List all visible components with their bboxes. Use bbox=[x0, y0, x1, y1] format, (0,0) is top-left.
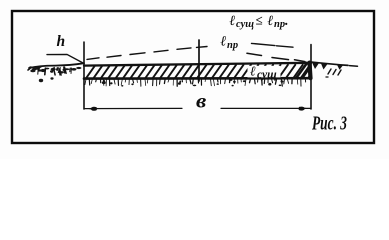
left ground texture bbox=[29, 66, 42, 70]
svg-text:в: в bbox=[196, 90, 207, 112]
grass texture under pavement bbox=[85, 79, 86, 84]
frame border bbox=[12, 11, 374, 143]
svg-text:ℓ: ℓ bbox=[230, 14, 236, 29]
label: Ris. 3 bbox=[311, 112, 347, 134]
left ground line bbox=[29, 63, 84, 68]
svg-text:h: h bbox=[57, 33, 66, 50]
right ground texture bbox=[312, 63, 319, 70]
hatching of pavement bbox=[86, 65, 325, 79]
label: formula l_sush <= l_pr. bbox=[230, 12, 289, 30]
svg-text:ℓ: ℓ bbox=[221, 35, 227, 50]
dimension line (right segment) bbox=[221, 107, 311, 109]
svg-text:Рис. 3: Рис. 3 bbox=[311, 112, 347, 134]
right extension line bbox=[310, 45, 312, 110]
left extension line bbox=[83, 42, 85, 109]
svg-text:сущ: сущ bbox=[257, 69, 277, 81]
svg-text:пр: пр bbox=[274, 19, 285, 30]
lower dashed segments (existing grade) bbox=[247, 53, 305, 61]
dimension line (left segment) bbox=[84, 107, 182, 109]
right dimension arrow bbox=[299, 107, 309, 110]
label: v (dimension) bbox=[196, 90, 207, 112]
left dimension arrow bbox=[87, 107, 97, 110]
centerline (road axis) bbox=[198, 40, 200, 81]
label h leader line bbox=[47, 54, 84, 63]
svg-text:пр: пр bbox=[227, 40, 238, 51]
pavement band: right end bold edge bbox=[310, 63, 311, 79]
svg-text:.: . bbox=[285, 14, 289, 29]
label: l_sush (on pavement) bbox=[248, 64, 281, 81]
pavement band: bottom edge bbox=[84, 77, 311, 80]
svg-text:сущ: сущ bbox=[236, 19, 254, 30]
pavement band: top edge bbox=[84, 63, 311, 66]
right ground line bbox=[309, 62, 348, 66]
svg-text:ℓ: ℓ bbox=[250, 64, 256, 79]
svg-text:≤: ≤ bbox=[256, 12, 263, 27]
svg-text:ℓ: ℓ bbox=[268, 14, 274, 29]
label: l_pr bbox=[221, 35, 239, 52]
dashed design grade line (i pr) bbox=[87, 43, 293, 59]
